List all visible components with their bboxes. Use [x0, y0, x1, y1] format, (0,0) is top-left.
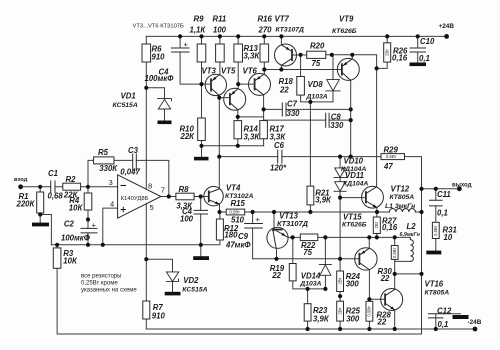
resistor R25 [337, 301, 344, 321]
resistor R28 [366, 301, 373, 321]
svg-text:22: 22 [279, 86, 289, 95]
svg-text:VT3: VT3 [202, 67, 217, 76]
svg-text:3,9К: 3,9К [313, 315, 330, 324]
wire C12 column [435, 314, 437, 329]
svg-text:R11: R11 [213, 14, 227, 23]
svg-text:R15: R15 [231, 199, 246, 208]
svg-text:Д103А: Д103А [299, 280, 321, 287]
wire VT7 collector [280, 66, 282, 70]
svg-text:КТ3102А: КТ3102А [225, 193, 254, 200]
svg-text:VT12: VT12 [391, 185, 410, 194]
wire R26 column [377, 36, 388, 68]
wire C8 right [329, 119, 351, 121]
svg-text:VD1: VD1 [121, 92, 136, 101]
wire VT16 base [369, 298, 385, 300]
wire VT16 collector [394, 274, 396, 289]
svg-text:+: + [92, 220, 97, 229]
wire R9/R10 column [201, 36, 203, 156]
wire C4b column [200, 197, 202, 245]
svg-text:VD10: VD10 [344, 157, 364, 166]
svg-text:3,3К: 3,3К [244, 133, 261, 142]
svg-text:0,1: 0,1 [438, 320, 449, 329]
node VT5 collector [236, 115, 240, 119]
resistor R12 [216, 219, 223, 240]
resistor R7 [143, 301, 150, 319]
capacitor C4b plates (near R8) [194, 210, 208, 214]
svg-text:270: 270 [258, 25, 273, 34]
resistor R11 [216, 44, 225, 62]
svg-text:100мкФ: 100мкФ [145, 74, 175, 83]
svg-text:0,16: 0,16 [392, 54, 408, 63]
svg-text:300: 300 [346, 280, 360, 289]
wire op-amp pin5 / R7 column [145, 204, 147, 329]
diode VD14 [319, 264, 331, 266]
svg-text:100: 100 [213, 25, 227, 34]
svg-text:330К: 330К [99, 164, 118, 173]
resistor R14 [234, 121, 242, 139]
svg-text:0,5Вт: 0,5Вт [433, 225, 438, 235]
svg-text:КТ3107Д: КТ3107Д [276, 26, 305, 33]
transistor VT16 [381, 289, 403, 311]
svg-text:220К: 220К [16, 199, 36, 208]
wire R12 top [219, 212, 221, 219]
resistor R23 [304, 304, 311, 321]
svg-text:L1 3мкГн: L1 3мкГн [385, 203, 415, 210]
svg-text:3: 3 [109, 178, 113, 187]
transistor VT15 [355, 248, 377, 270]
resistor R19 [289, 264, 296, 281]
wire R22 right row [318, 236, 377, 238]
node R30 top [393, 235, 397, 239]
node R24 R25 junction [338, 294, 342, 298]
capacitor C6 plates [278, 150, 282, 163]
svg-text:вход: вход [14, 177, 28, 183]
diode VD8 [326, 90, 340, 92]
wire C6 left row [219, 156, 277, 158]
wire VT13 collector [276, 250, 278, 259]
svg-text:КС515А: КС515А [113, 102, 138, 109]
svg-text:VT3...VT6 КТ3107Б: VT3...VT6 КТ3107Б [133, 23, 185, 29]
resistor R29 [381, 154, 405, 160]
svg-text:300: 300 [346, 315, 360, 324]
svg-text:КТ805А: КТ805А [390, 194, 415, 201]
wire bottom input row y244.8 [51, 244, 200, 246]
svg-text:2Вт: 2Вт [385, 49, 390, 56]
ground under C4b [193, 256, 209, 260]
wire VT3 base [202, 83, 212, 85]
wire driver base row y258.8 [253, 258, 360, 260]
svg-text:C1: C1 [48, 169, 58, 178]
op-amp plus [121, 207, 126, 212]
wire VT16 emitter [394, 310, 396, 329]
resistor R22 [300, 234, 318, 241]
svg-text:КТ3107Д: КТ3107Д [277, 219, 309, 228]
svg-text:R5: R5 [98, 148, 109, 157]
svg-text:3,3К: 3,3К [244, 52, 261, 61]
wire R3 top [56, 245, 58, 248]
svg-text:47мкФ: 47мкФ [225, 240, 251, 249]
nodes input row [38, 185, 42, 189]
wire VD1 branch [146, 88, 164, 121]
resistor R1 [37, 192, 44, 213]
wire VT3 collector column to C6 row [218, 95, 220, 188]
svg-text:3,9К: 3,9К [315, 195, 332, 204]
wire VT6 collector column / R17 [263, 95, 265, 146]
wire R12 bottom elbow [201, 240, 220, 245]
node R18/VD8 bottom [308, 100, 312, 104]
svg-text:7: 7 [161, 186, 165, 195]
diode VD10 [334, 177, 346, 179]
transistor VT12 [362, 186, 384, 208]
wire C9 column [252, 212, 254, 259]
node VT4 base [199, 194, 203, 198]
svg-text:330: 330 [330, 121, 344, 130]
nodes bottom input row [55, 243, 59, 247]
resistor R6 [142, 44, 151, 62]
wire R23 column [307, 289, 309, 329]
resistor R3 [53, 248, 61, 268]
svg-text:С2: С2 [64, 220, 75, 229]
svg-text:2Вт: 2Вт [337, 308, 342, 315]
wire R11 column / VT3 emitter [219, 36, 221, 74]
nodes VT16 collector row [393, 272, 397, 276]
svg-text:2Вт: 2Вт [374, 222, 379, 229]
wire VT9 collector link to R26 [352, 55, 376, 69]
svg-text:+24В: +24В [439, 23, 455, 30]
terminal -24V [473, 327, 478, 332]
svg-text:910: 910 [152, 312, 166, 321]
wire R18 column [301, 55, 333, 102]
ground under VD2 [165, 292, 181, 296]
svg-text:120*: 120* [270, 164, 287, 173]
capacitor C2 plates [81, 228, 97, 233]
svg-text:6,9мкГн: 6,9мкГн [400, 232, 421, 238]
ground near C12 [453, 315, 469, 319]
node R1 bottom [38, 212, 42, 216]
ground under R10 [194, 157, 209, 161]
resistor R18 [297, 77, 305, 96]
resistor R4 [84, 193, 92, 210]
wire C12 top to ground [443, 313, 461, 315]
svg-text:R16: R16 [258, 14, 273, 23]
svg-text:указанных на схеме: указанных на схеме [81, 288, 137, 294]
resistor R13 [234, 44, 243, 62]
node R20 left [299, 53, 303, 57]
svg-text:100: 100 [180, 214, 194, 223]
node C7 tap [262, 107, 266, 111]
wire C4 top column [180, 36, 201, 84]
capacitor C4 top-left plates [172, 48, 190, 52]
svg-text:0,25Вт кроме: 0,25Вт кроме [81, 280, 118, 286]
nodes C6 row [217, 155, 221, 159]
resistor R9 [197, 44, 206, 62]
resistor R27 [373, 217, 380, 234]
transistor VT7 [275, 44, 297, 66]
svg-text:VT6: VT6 [243, 67, 258, 76]
wire input row [21, 186, 118, 188]
svg-text:4: 4 [110, 200, 114, 209]
nodes output rail [419, 187, 423, 191]
resistor R31 [432, 222, 439, 238]
wire L2 top lead [409, 237, 411, 239]
wire R30 column [394, 237, 396, 274]
wire R27 to L2 row [377, 236, 411, 238]
terminal +24V [444, 34, 449, 39]
wire R16 column / VT6 emitter [263, 36, 265, 74]
svg-text:22: 22 [380, 274, 390, 283]
wire R19 column [293, 237, 326, 289]
svg-text:VD11: VD11 [345, 171, 364, 180]
wire VD10 VD11 column [339, 157, 341, 198]
svg-text:10: 10 [444, 233, 453, 242]
wire op-amp output row [161, 196, 209, 198]
svg-text:10К: 10К [63, 256, 78, 265]
svg-text:R2: R2 [66, 175, 77, 184]
svg-text:Д103А: Д103А [306, 93, 328, 100]
svg-text:VD2: VD2 [183, 276, 199, 285]
wire C6 to R29 row [282, 156, 381, 158]
svg-text:180: 180 [224, 230, 238, 239]
wire R27 column [376, 212, 378, 237]
svg-text:VT15: VT15 [343, 213, 362, 222]
wire R29 to output column [405, 157, 422, 334]
svg-text:5: 5 [150, 203, 154, 212]
nodes ground row [199, 144, 203, 148]
wire ground row under R10 R14 [202, 145, 264, 147]
svg-text:С6: С6 [274, 141, 285, 150]
transistor VT4 [204, 187, 223, 206]
node op-amp output [167, 194, 171, 198]
wire R21 column [309, 102, 311, 212]
wire -24V rail [146, 328, 475, 330]
wire VT7 emitter [280, 36, 282, 44]
transistor VT6 [249, 73, 271, 95]
svg-text:2Вт: 2Вт [337, 278, 342, 285]
svg-text:75: 75 [312, 59, 321, 68]
capacitor C11 plates [430, 200, 443, 206]
op-amp U1 triangle [118, 175, 161, 218]
node VD1 tap [144, 86, 148, 90]
node VT6 emitter [262, 67, 266, 71]
wire VT5 collector to R14 [237, 110, 239, 146]
node R26 bottom [375, 66, 379, 70]
transistor VT3 [205, 74, 226, 95]
node VT7 collector [279, 67, 283, 71]
svg-text:0,5Вт: 0,5Вт [392, 248, 397, 258]
svg-text:К140УД8Б: К140УД8Б [121, 196, 149, 202]
resistor R15 [226, 209, 245, 215]
transistor VT9 [337, 58, 359, 80]
zener diode VD2 [166, 279, 178, 281]
wire R4 column / C2 [87, 187, 89, 245]
svg-text:8: 8 [148, 182, 152, 191]
wire R1 column [39, 187, 41, 223]
node dots top rail [178, 34, 182, 38]
node VT3 base [199, 82, 203, 86]
wire bias row y212 [220, 211, 378, 213]
svg-text:+: + [184, 40, 189, 49]
capacitor C9 plates [245, 224, 263, 229]
ground under R31 [426, 251, 441, 255]
wire VD2 branch [146, 259, 172, 292]
zener diode VD1 [158, 99, 172, 101]
resistor R30 [391, 246, 398, 260]
wire VT7 base to R20 [297, 54, 307, 56]
nodes VT9 emitter column [349, 107, 353, 111]
svg-text:все резисторы: все резисторы [81, 273, 121, 279]
wire VT13 emitter [288, 236, 300, 238]
op-amp minus [121, 185, 126, 187]
svg-text:22: 22 [377, 318, 387, 327]
diode VD11 [334, 190, 346, 192]
wire L2 bottom lead [395, 260, 411, 262]
nodes driver base row [274, 257, 278, 261]
transistor VT5 [224, 88, 246, 110]
resistor R10 [198, 118, 206, 141]
capacitor C10 plates [410, 48, 426, 52]
svg-text:C11: C11 [437, 190, 451, 199]
wire C7 right [286, 108, 351, 110]
wire VD11 to R24 R25 column [339, 198, 341, 329]
svg-text:L2: L2 [407, 222, 417, 231]
capacitor C7 plates [282, 103, 286, 116]
svg-text:VT16: VT16 [425, 280, 444, 289]
wire R20 right row [326, 54, 353, 56]
svg-text:R7: R7 [153, 303, 164, 312]
wire VT5 collector C8 link [238, 116, 264, 118]
svg-text:R20: R20 [310, 42, 325, 51]
wire VT9 base row [264, 69, 342, 71]
svg-text:VT4: VT4 [226, 183, 241, 192]
node VT16 base row [367, 297, 371, 301]
resistor R21 [307, 186, 314, 205]
resistor R17 [260, 121, 268, 139]
capacitor C8 plates [326, 113, 329, 127]
nodes R19/R23/VD14 row [306, 287, 310, 291]
svg-text:C3: C3 [128, 146, 139, 155]
svg-text:10К: 10К [69, 203, 84, 212]
svg-text:0,5Вт: 0,5Вт [386, 154, 396, 159]
wire +24V top rail [146, 35, 446, 37]
resistor R26 [384, 43, 391, 62]
svg-text:R29: R29 [384, 145, 399, 154]
wire VT4 emitter [219, 204, 221, 212]
wire feedback bottom [57, 268, 421, 334]
capacitor C3 plates [133, 154, 137, 171]
svg-text:R9: R9 [194, 14, 205, 23]
svg-text:0,1: 0,1 [437, 209, 448, 218]
wire VT9 emitter column [350, 80, 352, 156]
wire VT12 emitter [376, 207, 378, 212]
svg-text:-24В: -24В [468, 319, 482, 326]
svg-text:КТ626Б: КТ626Б [332, 28, 357, 35]
svg-text:+: + [256, 215, 261, 224]
inductor L2 [410, 240, 413, 262]
svg-text:КТ805А: КТ805А [425, 290, 450, 297]
node C2 top [86, 217, 90, 221]
svg-text:C7: C7 [287, 100, 298, 109]
svg-text:КТ626Б: КТ626Б [342, 222, 367, 229]
svg-text:3,3К: 3,3К [176, 201, 193, 210]
wire C8 left [264, 119, 326, 121]
svg-text:330: 330 [287, 109, 301, 118]
svg-text:VD8: VD8 [308, 80, 324, 89]
svg-text:VT7: VT7 [275, 14, 290, 23]
svg-text:VD14: VD14 [301, 272, 321, 281]
svg-text:22: 22 [271, 271, 281, 280]
wire C11 R31 column [435, 189, 437, 251]
wire VT13 base lead [273, 212, 275, 231]
wire C10 column [417, 36, 419, 62]
terminal output [457, 186, 462, 191]
node VD11 bottom [338, 196, 342, 200]
nodes R22 row [291, 235, 295, 239]
resistor R24 [337, 271, 344, 292]
svg-text:0,5Вт: 0,5Вт [230, 210, 240, 215]
wire VD14 column [324, 237, 326, 289]
svg-text:выход: выход [452, 182, 472, 188]
wire C4 mid ground lead [200, 245, 202, 256]
svg-text:0,047: 0,047 [120, 168, 140, 177]
wire VT16 collector to output column [395, 273, 422, 275]
svg-text:0,16: 0,16 [382, 223, 398, 232]
wire output rail [422, 188, 460, 190]
wire VT15 collector [368, 237, 370, 248]
wire op-amp pin4 [103, 208, 118, 245]
svg-text:910: 910 [152, 53, 166, 62]
resistor R5 [94, 157, 114, 164]
node R13/VT5 emitter [236, 82, 240, 86]
ground under VD1 [158, 121, 172, 125]
svg-text:47: 47 [383, 162, 393, 171]
capacitor C1 plates [51, 181, 55, 193]
resistor R8 [176, 193, 194, 200]
svg-text:C10: C10 [420, 37, 435, 46]
wire VT15 emitter column [368, 270, 370, 300]
svg-text:100мкФ: 100мкФ [61, 233, 91, 242]
svg-text:VT9: VT9 [339, 14, 354, 23]
wire L1 leads [377, 211, 422, 213]
node pin5/VD2/R7 [144, 257, 148, 261]
node VT5 base tap [217, 96, 221, 100]
resistor R2 [63, 183, 81, 190]
resistor R16 [260, 44, 269, 62]
capacitor C12 plates [429, 314, 444, 318]
svg-text:КС515А: КС515А [182, 286, 207, 293]
svg-text:0,1: 0,1 [419, 54, 430, 63]
wire VT12 base [340, 197, 366, 199]
ground under C10 [410, 63, 427, 67]
wire R5 C3 loop [88, 160, 169, 196]
transistor VT13 [267, 227, 288, 248]
svg-text:R8: R8 [179, 185, 190, 194]
wire R28 column [368, 299, 370, 329]
inductor L1 [389, 209, 415, 213]
wire R6/op-amp pin8 column [145, 36, 147, 189]
svg-text:КД104А: КД104А [343, 180, 368, 187]
wire C7 left [264, 108, 283, 110]
nodes -24V rail [306, 327, 310, 331]
wire R13 column / VT5 emitter [237, 36, 239, 88]
svg-text:75: 75 [303, 248, 312, 257]
wire VT6 base [238, 83, 254, 85]
terminal input [18, 184, 23, 189]
svg-text:0,68: 0,68 [48, 191, 64, 200]
wire R1 to feedback node [40, 215, 51, 245]
wire VT12 collector column [376, 68, 378, 186]
svg-text:0,5Вт: 0,5Вт [367, 306, 372, 316]
ground under R1 [32, 223, 49, 227]
